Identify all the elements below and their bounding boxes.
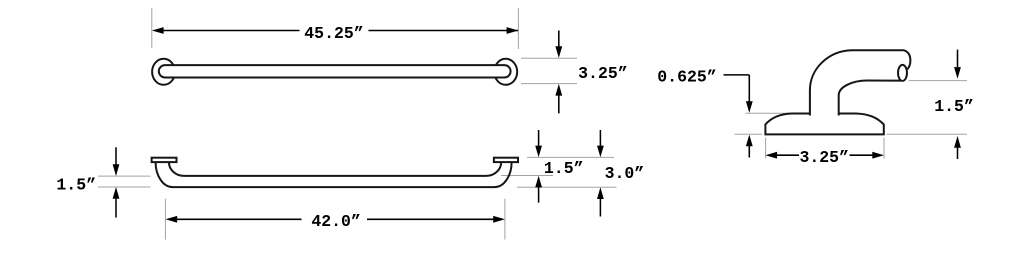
svg-text:3.25”: 3.25” — [799, 148, 849, 167]
svg-text:0.625”: 0.625” — [657, 67, 716, 86]
svg-text:3.0”: 3.0” — [605, 164, 645, 183]
svg-text:42.0”: 42.0” — [311, 212, 361, 231]
svg-text:1.5”: 1.5” — [56, 175, 96, 194]
svg-text:45.25”: 45.25” — [304, 24, 363, 43]
svg-text:1.5”: 1.5” — [934, 97, 974, 116]
svg-text:1.5”: 1.5” — [544, 159, 584, 178]
svg-text:3.25”: 3.25” — [578, 64, 628, 83]
